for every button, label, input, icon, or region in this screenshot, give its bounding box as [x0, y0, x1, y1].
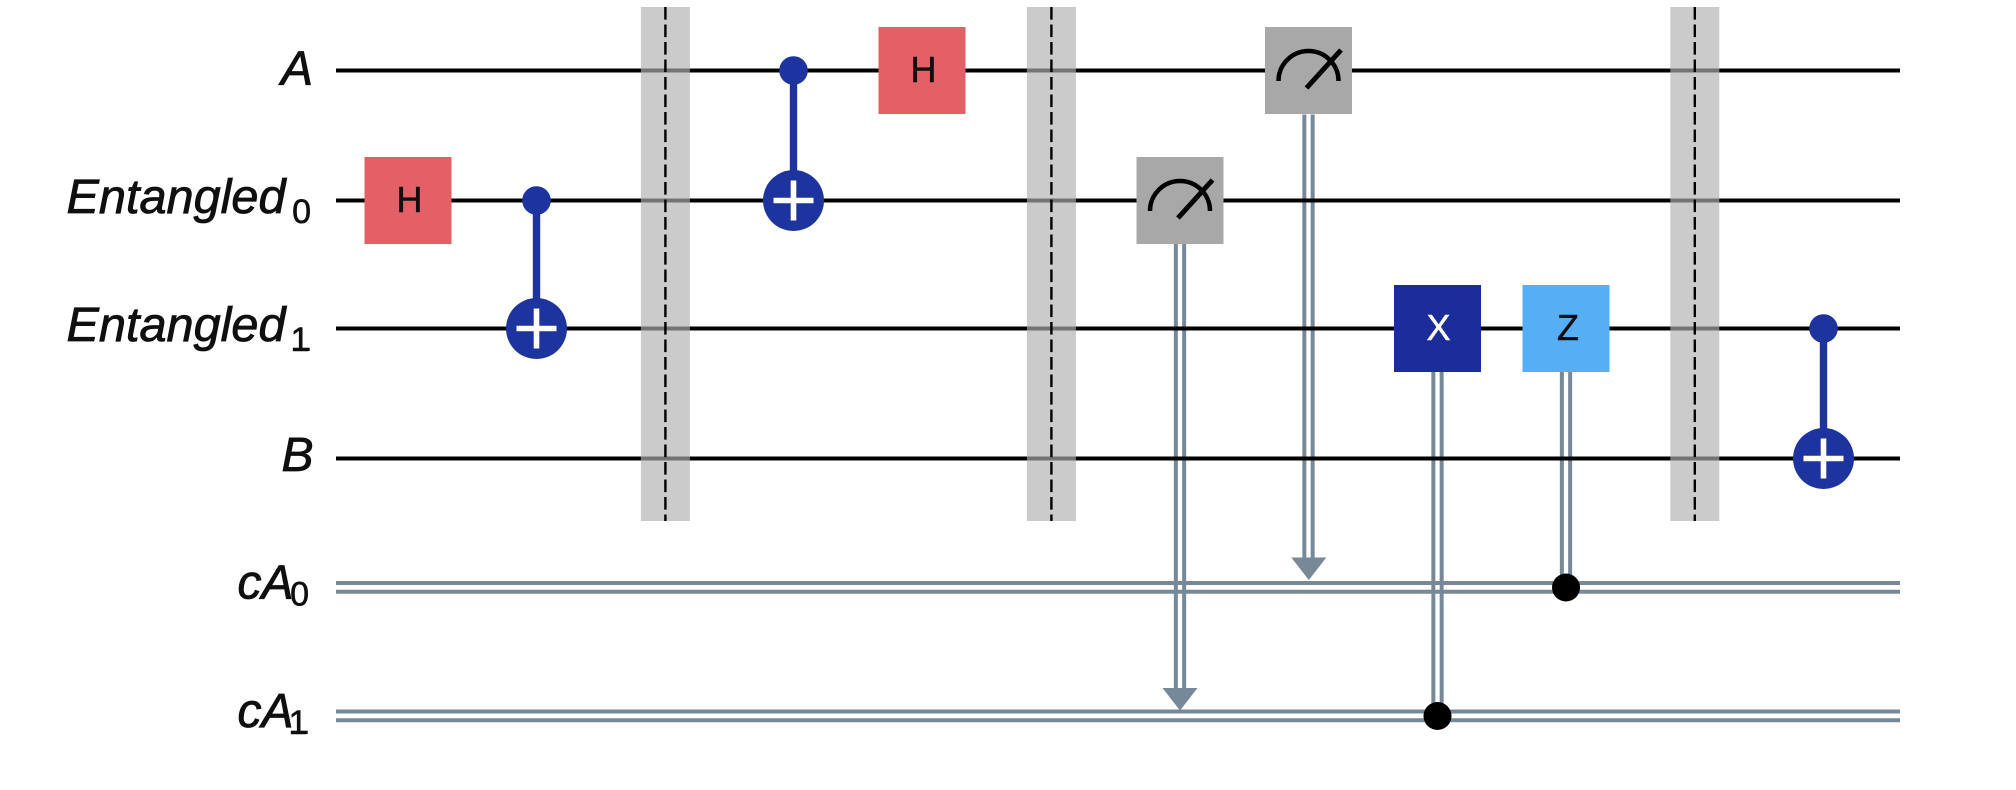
svg-text:X: X	[1426, 307, 1450, 348]
svg-text:A: A	[278, 43, 313, 96]
svg-text:cA: cA	[238, 685, 294, 738]
svg-text:B: B	[282, 429, 314, 482]
svg-text:Entangled: Entangled	[67, 299, 287, 352]
svg-text:cA: cA	[238, 557, 294, 610]
svg-text:H: H	[911, 49, 937, 90]
svg-text:0: 0	[292, 193, 311, 231]
svg-text:0: 0	[290, 576, 309, 614]
svg-text:H: H	[397, 179, 423, 220]
svg-text:Z: Z	[1557, 307, 1579, 348]
svg-text:1: 1	[291, 321, 310, 359]
svg-text:Entangled: Entangled	[67, 171, 287, 224]
svg-text:1: 1	[289, 704, 308, 742]
